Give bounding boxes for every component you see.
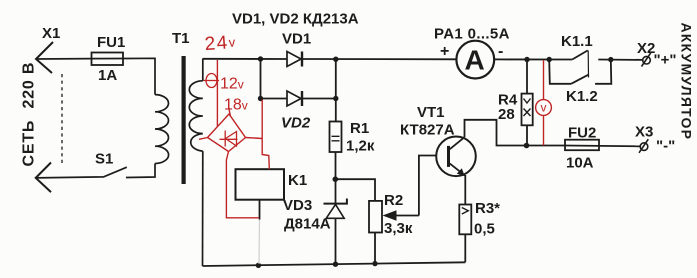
R2 wiper arrowhead — [383, 210, 397, 220]
wire bottom rail — [203, 262, 466, 266]
label minus — [498, 43, 503, 60]
label VD3 — [283, 197, 312, 214]
svg-text:R3*: R3* — [475, 200, 500, 217]
svg-text:VD1, VD2 КД213А: VD1, VD2 КД213А — [232, 11, 359, 28]
terminal X3 — [639, 139, 648, 153]
red wire text to bridge top — [229, 108, 231, 117]
svg-text:+: + — [440, 43, 449, 60]
red annotation 12v — [220, 76, 244, 93]
svg-text:VD1: VD1 — [282, 31, 311, 48]
label "+" — [654, 52, 677, 69]
label FU1 — [97, 34, 125, 51]
red voltmeter — [536, 60, 552, 146]
label 10A — [566, 155, 594, 172]
red diode bridge — [208, 114, 246, 152]
svg-text:A: A — [465, 45, 485, 76]
svg-text:Д814А: Д814А — [284, 216, 331, 233]
red voltmeter v label — [541, 101, 547, 115]
switch S1 — [36, 164, 155, 178]
wire node to R2 top — [335, 179, 375, 201]
svg-text:28: 28 — [498, 106, 515, 123]
label R4 — [498, 92, 518, 109]
fuse FU1 — [92, 53, 124, 66]
contact linkage — [587, 51, 589, 78]
label VD1, VD2 КД213А — [232, 11, 359, 28]
ghost erased wire K1 to rail — [258, 220, 261, 265]
svg-text:0,5: 0,5 — [474, 221, 495, 238]
node junction dots top rail — [258, 56, 339, 101]
label 1,2к — [346, 138, 375, 155]
label АККУМУЛЯТОР (rotated) — [679, 23, 695, 141]
label R3* — [475, 200, 500, 217]
wire rail to R1 — [335, 99, 337, 122]
label СЕТЬ 220 В (rotated) — [21, 62, 38, 167]
label K1.2 — [566, 88, 598, 105]
resistor R1 — [330, 122, 342, 153]
svg-text:1,2к: 1,2к — [346, 138, 375, 155]
relay contact K1.2 — [549, 60, 611, 84]
svg-text:T1: T1 — [172, 30, 190, 47]
label PA1 0...5A — [434, 26, 510, 43]
svg-text:КТ827А: КТ827А — [400, 122, 455, 139]
wire VT1 emitter to R3 — [464, 175, 466, 205]
diode VD1 — [287, 52, 303, 67]
svg-text:12v: 12v — [220, 76, 244, 93]
svg-text:VT1: VT1 — [417, 104, 445, 121]
wire VD2 branch — [261, 59, 336, 99]
svg-text:1A: 1A — [98, 67, 117, 84]
fuse FU2 — [565, 140, 599, 151]
svg-text:S1: S1 — [95, 151, 113, 168]
switch S1 arrow — [36, 163, 51, 193]
red wire secondary to bridge left — [199, 138, 208, 140]
terminal X2 — [642, 53, 651, 67]
label T1 — [172, 30, 190, 47]
label X3 — [635, 124, 653, 141]
node R1/VD3/R2 — [333, 176, 339, 182]
svg-text:X3: X3 — [635, 124, 653, 141]
VT1 emitter arrowhead — [457, 168, 465, 176]
label 28 — [498, 106, 515, 123]
red wire bridge bottom to K1 coil — [226, 152, 259, 218]
svg-text:X1: X1 — [42, 25, 60, 42]
transformer T1 core — [182, 56, 186, 184]
label 3,3к — [384, 220, 413, 237]
zener diode VD3 — [324, 199, 347, 266]
dashed mains linkage line — [61, 74, 63, 165]
label VD2 — [281, 115, 311, 132]
svg-text:"-": "-" — [656, 138, 675, 155]
bottom rail junction dots — [256, 261, 378, 268]
svg-text:VD2: VD2 — [281, 115, 311, 132]
label X2 — [637, 40, 655, 57]
connector X1 arrow — [36, 42, 53, 73]
label VD1 — [282, 31, 311, 48]
transformer T1 secondary winding — [189, 59, 203, 267]
potentiometer R2 — [369, 201, 419, 265]
label plus — [440, 43, 449, 60]
red wire bridge right to VD2 node and K1 top — [246, 100, 270, 170]
svg-text:3,3к: 3,3к — [384, 220, 413, 237]
red wire from top rail down — [216, 60, 218, 127]
wire main top rail — [203, 59, 643, 60]
svg-text:v: v — [541, 101, 547, 115]
resistor R4 — [522, 60, 533, 146]
svg-text:"+": "+" — [654, 52, 677, 69]
svg-text:FU2: FU2 — [568, 125, 596, 142]
label 0,5 — [474, 221, 495, 238]
wire VT1 collector path — [465, 120, 566, 146]
label X1 — [42, 25, 60, 42]
label КТ827А — [400, 122, 455, 139]
label S1 — [95, 151, 113, 168]
svg-text:K1.1: K1.1 — [561, 33, 593, 50]
svg-text:18v: 18v — [224, 97, 248, 114]
ammeter PA1 — [456, 41, 494, 79]
node dots near K contacts — [524, 57, 613, 63]
wire R1 to VD3 and node — [335, 152, 337, 203]
transistor VT1 — [436, 137, 476, 177]
red annotation circled symbol — [204, 74, 220, 88]
svg-text:VD3: VD3 — [283, 197, 312, 214]
svg-text:R1: R1 — [350, 120, 369, 137]
svg-text:K1: K1 — [288, 172, 307, 189]
label FU2 — [568, 125, 596, 142]
svg-text:FU1: FU1 — [97, 34, 125, 51]
svg-text:220 В: 220 В — [21, 62, 38, 109]
label R1 — [350, 120, 369, 137]
svg-text:K1.2: K1.2 — [566, 88, 598, 105]
node collector/R4/FU2 — [524, 143, 530, 149]
label K1 — [288, 172, 307, 189]
diode VD2 — [287, 91, 303, 106]
resistor R3 — [459, 205, 471, 263]
svg-text:-: - — [498, 43, 503, 60]
label R2 — [384, 192, 403, 209]
wire R2 wiper to VT1 base — [419, 156, 448, 216]
svg-text:PA1 0...5A: PA1 0...5A — [434, 26, 510, 43]
label "-" — [656, 138, 675, 155]
wire X1 to transformer primary — [36, 58, 155, 94]
svg-text:СЕТЬ: СЕТЬ — [21, 120, 38, 167]
relay coil K1 — [236, 169, 285, 219]
red annotation 24v — [204, 32, 238, 55]
svg-text:R2: R2 — [384, 192, 403, 209]
label K1.1 — [561, 33, 593, 50]
label 1A — [98, 67, 117, 84]
red annotation 18v — [224, 97, 248, 114]
wire collector node to FU2 — [565, 145, 640, 148]
svg-text:10A: 10A — [566, 155, 594, 172]
relay contact K1.1 — [572, 50, 588, 59]
svg-text:АККУМУЛЯТОР: АККУМУЛЯТОР — [679, 23, 695, 141]
label Д814А — [284, 216, 331, 233]
transformer T1 primary winding — [155, 95, 169, 164]
label VT1 — [417, 104, 445, 121]
red bridge inner diode — [220, 131, 238, 147]
